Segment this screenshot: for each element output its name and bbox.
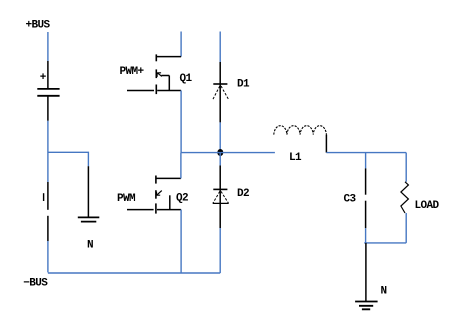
svg-text:+BUS: +BUS [26,20,51,32]
svg-text:+: + [40,72,47,84]
svg-text:L1: L1 [289,152,302,164]
wire Q2 source down (blue) [180,210,182,273]
wire Q1 source down (blue) [180,91,182,153]
svg-text:−BUS: −BUS [23,277,48,289]
inductor L1 [274,126,327,135]
wire C3 top (blue) [365,153,367,169]
wire midpoint horizontal to L1 (blue) [181,152,275,154]
svg-text:N: N [87,240,93,252]
svg-text:PWM: PWM [117,193,136,205]
resistor LOAD [401,182,409,213]
wire left mid vertical (blue) [47,121,49,182]
junction node dot [217,149,223,156]
ground symbol left [78,217,100,221]
capacitor C2 bottom lead [47,216,49,241]
capacitor C1 top lead [47,61,49,88]
svg-text:D1: D1 [237,79,250,91]
transistor Q1 [156,54,181,94]
wire branch to left ground (blue) [48,152,89,166]
wire left bottom vertical to -BUS (blue) [47,241,49,272]
svg-text:PWM+: PWM+ [120,66,145,78]
wire D1 bottom to junction (blue) [219,122,221,152]
wire C3 bottom (blue) [365,228,367,243]
ground lead right N [365,243,367,302]
svg-text:Q1: Q1 [180,73,193,85]
inductor L1 right lead [325,135,327,153]
diode D1 [213,62,229,122]
wire LOAD bottom (blue) [405,213,407,243]
wire Q2 drain up (blue) [180,153,182,179]
wire D2 bottom to -BUS (blue) [219,228,221,273]
wire Q1 drain up (blue) [180,32,182,57]
wire LOAD top (blue) [405,153,407,182]
svg-text:LOAD: LOAD [415,200,440,212]
svg-text:Q2: Q2 [176,193,188,205]
capacitor C1 bottom lead [47,97,49,121]
wire +BUS vertical (blue) [47,32,49,61]
svg-text:D2: D2 [237,188,249,200]
capacitor C2 top lead [47,182,49,210]
wire L1 to right node (blue) [326,152,406,154]
wire PWM gate [127,209,154,211]
transistor Q2 [156,176,181,214]
diode D2 [213,166,229,229]
svg-text:N: N [381,286,387,298]
wire D2 top (blue) [219,153,221,166]
capacitor C1 plates [37,89,59,96]
capacitor C3 [365,168,367,228]
ground lead left N [87,166,89,217]
wire bottom right rail (blue) [364,242,406,244]
capacitor C2 tick mark [43,193,45,201]
ground symbol right [355,302,378,310]
svg-text:C3: C3 [344,194,357,206]
wire -BUS rail (blue) [48,272,220,274]
wire PWM+ gate [127,90,154,92]
wire D1 top (blue) [219,32,221,63]
